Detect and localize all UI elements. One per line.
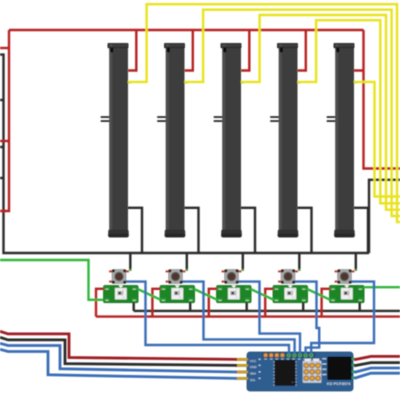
WS2812 LED board D1 [103,285,138,302]
wire black LED D2 VSS drop [189,303,191,311]
wire black GND right riser and exit [369,180,400,253]
wire black GND stub left edge B [0,146,4,148]
wire green data-in bus from left edge [0,260,104,300]
wire red VCC to pot RV2 [185,30,193,71]
wire green LED D3 DOUT to D4 DIN [251,289,274,300]
slide potentiometer RV2 [157,43,187,238]
wire red bundle from connector [354,356,400,359]
svg-text:SCL: SCL [250,378,256,382]
WS2812 LED board D5 [329,285,364,302]
slide potentiometer RV5 [327,43,357,238]
svg-text:GND: GND [250,365,256,369]
wire black GND stub left edge C [0,177,4,179]
wire red VCC left riser [0,30,9,211]
wire green LED D2 DOUT to D3 DIN [194,289,217,300]
wire green LED D4 DOUT to D5 DIN [307,289,330,300]
wire red VCC to pot RV1 [128,30,136,71]
svg-text:VCC: VCC [250,359,256,363]
pin header J1 VCC GND SDA SCL [236,358,261,382]
svg-text:SDA: SDA [250,372,256,376]
slide potentiometer RV3 [214,43,244,238]
push button S5 [335,270,355,284]
wire green LED D5 DOUT right exit [364,286,400,288]
wire red LED D5 VDD riser [322,289,330,317]
wire red LED D2 VDD riser [152,289,160,317]
wire black LED D4 VSS drop [302,303,304,311]
wire black pot RV1 to GND bus [128,208,142,253]
push button S4 [278,270,298,284]
WS2812 LED board D2 [160,285,195,302]
push button S3 [222,270,242,284]
IC module U1 PCF8574 breakout board [247,352,353,391]
wire green LED D1 DOUT to D2 DIN [138,289,161,300]
wire blue bundle from connector SCL [354,373,400,378]
wire blue bundle from connector SDA [354,368,400,372]
wire blue button S2 to PCF8574 P1 [182,282,294,354]
wire blue button S3 to PCF8574 P2 [238,282,300,354]
wire black bundle from connector [354,363,400,366]
wire red bundle to PCF8574 VCC [0,331,237,359]
slide potentiometer RV1 [101,43,131,238]
svg-text:KD PCF8574: KD PCF8574 [327,381,351,386]
wire red VCC top bus [9,29,364,31]
wire black pot RV4 to GND bus [298,208,312,253]
wire red LED D1 VDD riser [96,289,104,317]
push button S2 [166,270,186,284]
wire blue button S5 to PCF8574 P4 [311,282,374,354]
wire black button S3 to GND bus [242,253,244,270]
wire red VCC to pot RV3 [241,30,249,71]
wire black pot RV3 to GND bus [241,208,255,253]
wire black LED VSS bus [134,310,400,312]
IC chip PCF8574 SO-16 [273,360,297,386]
wire black button S5 to GND bus [355,253,357,270]
wire black GND stub left edge A [0,99,4,101]
wire red LED D3 VDD riser [209,289,217,317]
WS2812 LED board D3 [216,285,251,302]
wire black pot RV2 to GND bus [185,208,199,253]
slide potentiometer RV4 [270,43,300,238]
wire yellow pot RV4 wiper [297,20,400,203]
wire black bundle to PCF8574 GND [0,337,237,365]
wire blue bundle to PCF8574 SCL [0,349,237,378]
wire red LED VDD bus [96,315,400,317]
push button S1 [109,270,129,284]
wire black GND left rail [0,55,369,253]
connector J2 black socket [322,357,355,381]
wire red LED D4 VDD riser [265,289,273,317]
wire yellow pot RV1 wiper [128,4,400,222]
wire black LED D3 VSS drop [245,303,247,311]
wire blue bundle to PCF8574 SDA [0,343,237,372]
wire red stub left edge A [0,47,9,49]
wire black button S2 to GND bus [186,253,188,270]
WS2812 LED board D4 [273,285,308,302]
wire black button S1 to GND bus [129,253,131,270]
wire black pot RV5 to GND bus [354,208,368,253]
wire blue button S4 to PCF8574 P3 [295,282,319,354]
wire red VCC to pot RV4 [298,30,306,71]
wire blue button S1 to PCF8574 P0 [126,282,289,354]
wire yellow pot RV3 wiper [241,15,400,210]
wire black LED D5 VSS drop [359,303,361,311]
wire yellow pot RV2 wiper [184,10,400,216]
jumper block A0 A1 A2 [303,359,322,383]
wire yellow pot RV5 wiper [354,82,400,197]
wire black button S4 to GND bus [298,253,300,270]
wire black LED D1 VSS drop [132,303,134,311]
wire red VCC to pot RV5 and right exit [354,30,400,169]
wire red stub left edge B [0,140,9,142]
